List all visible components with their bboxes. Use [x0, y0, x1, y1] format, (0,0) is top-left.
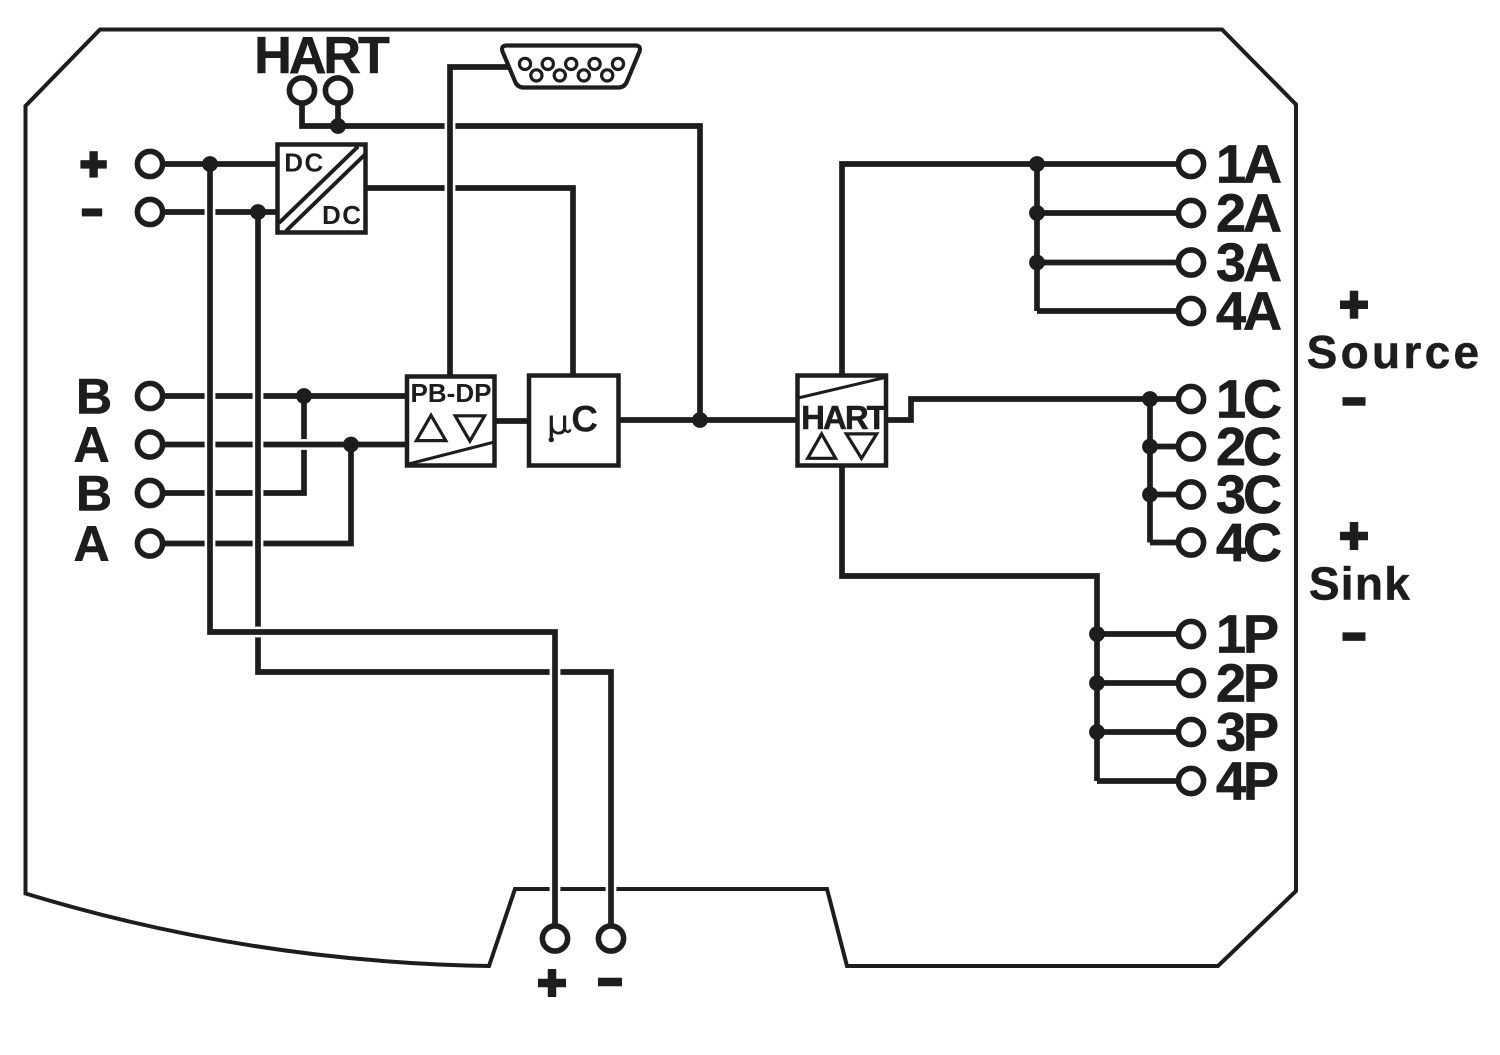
junction dot on uC-HART wire — [692, 412, 708, 428]
wire: HART modem top to 1A row — [842, 164, 1180, 376]
terminal circle bottom + — [542, 926, 567, 951]
label - (source) — [1343, 397, 1366, 406]
junction dot 2P — [1089, 675, 1105, 691]
wire: uC to HART modem — [618, 417, 798, 423]
terminal circle 2A — [1178, 200, 1203, 225]
junction dot 3C — [1142, 487, 1158, 503]
label + (source) — [1340, 291, 1368, 319]
DB9 pin 9 — [602, 70, 613, 81]
wire: HART right terminal stem — [335, 102, 341, 130]
junction dot 1A — [1029, 156, 1045, 172]
terminal circle A2 — [137, 531, 162, 556]
DB9 pin 8 — [578, 70, 589, 81]
wire: HART modem bottom to P group bus — [842, 464, 1097, 781]
terminal circle 1C — [1178, 386, 1203, 411]
wire: terminal + to DC/DC — [162, 161, 278, 167]
terminal circle HART right — [325, 78, 350, 103]
label bottom - — [598, 978, 622, 987]
wire: terminal - to DC/DC — [162, 209, 278, 215]
device enclosure outline — [26, 30, 1297, 967]
svg-text:4C: 4C — [1216, 513, 1281, 573]
DB9 pin 2 — [542, 58, 553, 69]
junction dot on - wire — [250, 204, 266, 220]
wire: 3P branch — [1097, 729, 1180, 735]
uC microcontroller block — [529, 376, 619, 466]
DB9 connector shell — [502, 46, 640, 88]
terminal circle 2C — [1178, 434, 1203, 459]
wire: 4C branch — [1150, 540, 1180, 546]
terminal circle B2 — [137, 480, 162, 505]
wire: 3C branch — [1150, 492, 1180, 498]
svg-text:Source: Source — [1307, 326, 1483, 378]
terminal circle 4C — [1178, 530, 1203, 555]
label + (sink) — [1340, 522, 1368, 550]
svg-text:C: C — [571, 399, 598, 440]
DB9 pin 6 — [531, 70, 542, 81]
wire: A group bus — [1034, 164, 1040, 311]
svg-text:4P: 4P — [1216, 752, 1278, 812]
wire: DC/DC output to uC top — [365, 188, 573, 376]
wire: B (row1) to PB-DP — [162, 391, 407, 402]
DB9 pin 5 — [612, 58, 623, 69]
junction dot 2A — [1029, 205, 1045, 221]
wire: HART modem right to 1C row — [884, 399, 1180, 420]
DB9 pin 7 — [554, 70, 565, 81]
svg-text:HART: HART — [254, 27, 390, 85]
wire: PB-DP to uC — [495, 418, 529, 424]
terminal circle bottom - — [598, 926, 623, 951]
wire: A (row1) to PB-DP — [162, 439, 407, 450]
wire: C group bus — [1147, 399, 1153, 543]
terminal circle 4A — [1178, 298, 1203, 323]
wire: 2A branch — [1037, 210, 1180, 216]
terminal circle 1A — [1178, 151, 1203, 176]
svg-text:A: A — [73, 516, 109, 572]
DC/DC converter block — [278, 145, 366, 233]
junction dot on A wire — [343, 437, 359, 453]
svg-text:DC: DC — [284, 147, 325, 177]
DB9 pin 1 — [519, 58, 530, 69]
wire: A (row2) up to A bus — [162, 445, 351, 544]
wire: HART terminals to uC (left stem, horizontal, down at x=700) — [162, 67, 1180, 926]
DB9 pin 3 — [566, 58, 577, 69]
svg-text:4A: 4A — [1216, 282, 1281, 342]
wire: 4P branch — [1097, 778, 1180, 784]
svg-text:B: B — [76, 466, 112, 522]
wire: 2C branch — [1150, 444, 1180, 450]
junction dot on + wire — [202, 156, 218, 172]
wire: 2P branch — [1097, 680, 1180, 686]
DB9 pin 4 — [589, 58, 600, 69]
terminal circle B1 — [137, 383, 162, 408]
junction dot 1C — [1142, 391, 1158, 407]
label - (left supply) — [82, 208, 102, 216]
PB-DP converter block — [407, 377, 495, 466]
label + (left supply) — [80, 151, 106, 177]
svg-text:Sink: Sink — [1309, 558, 1411, 610]
junction dot HART terminals — [330, 118, 346, 134]
terminal circle 1P — [1178, 621, 1203, 646]
junction dot 3A — [1029, 255, 1045, 271]
wire: minus rail down to bottom minus terminal — [258, 212, 611, 926]
terminal circle - — [137, 199, 162, 224]
svg-text:DC: DC — [322, 200, 363, 230]
svg-text:PB-DP: PB-DP — [411, 378, 492, 408]
junction dot 2C — [1142, 439, 1158, 455]
terminal circle 4P — [1178, 768, 1203, 793]
wire: 3A branch — [1037, 260, 1180, 266]
terminal circle 3A — [1178, 250, 1203, 275]
wire: 4A branch — [1037, 308, 1180, 314]
junction dot 1P — [1089, 626, 1105, 642]
wire: DB9 connector to PB-DP top — [450, 67, 508, 377]
wire: B (row2) up to B bus — [162, 396, 304, 493]
junction dot 3P — [1089, 724, 1105, 740]
terminal circle HART left — [289, 78, 314, 103]
terminal circle A1 — [137, 432, 162, 457]
junction dot on B wire — [296, 388, 312, 404]
wire: 1P branch — [1097, 631, 1180, 637]
svg-text:HART: HART — [801, 399, 886, 436]
label - (sink) — [1343, 632, 1366, 641]
terminal circle 3P — [1178, 719, 1203, 744]
terminal circle 3C — [1178, 482, 1203, 507]
HART modem block — [798, 376, 887, 466]
wire: plus rail down to bottom plus terminal — [210, 164, 555, 926]
label bottom + — [538, 969, 566, 997]
terminal circle 2P — [1178, 670, 1203, 695]
terminal circle + — [137, 151, 162, 176]
